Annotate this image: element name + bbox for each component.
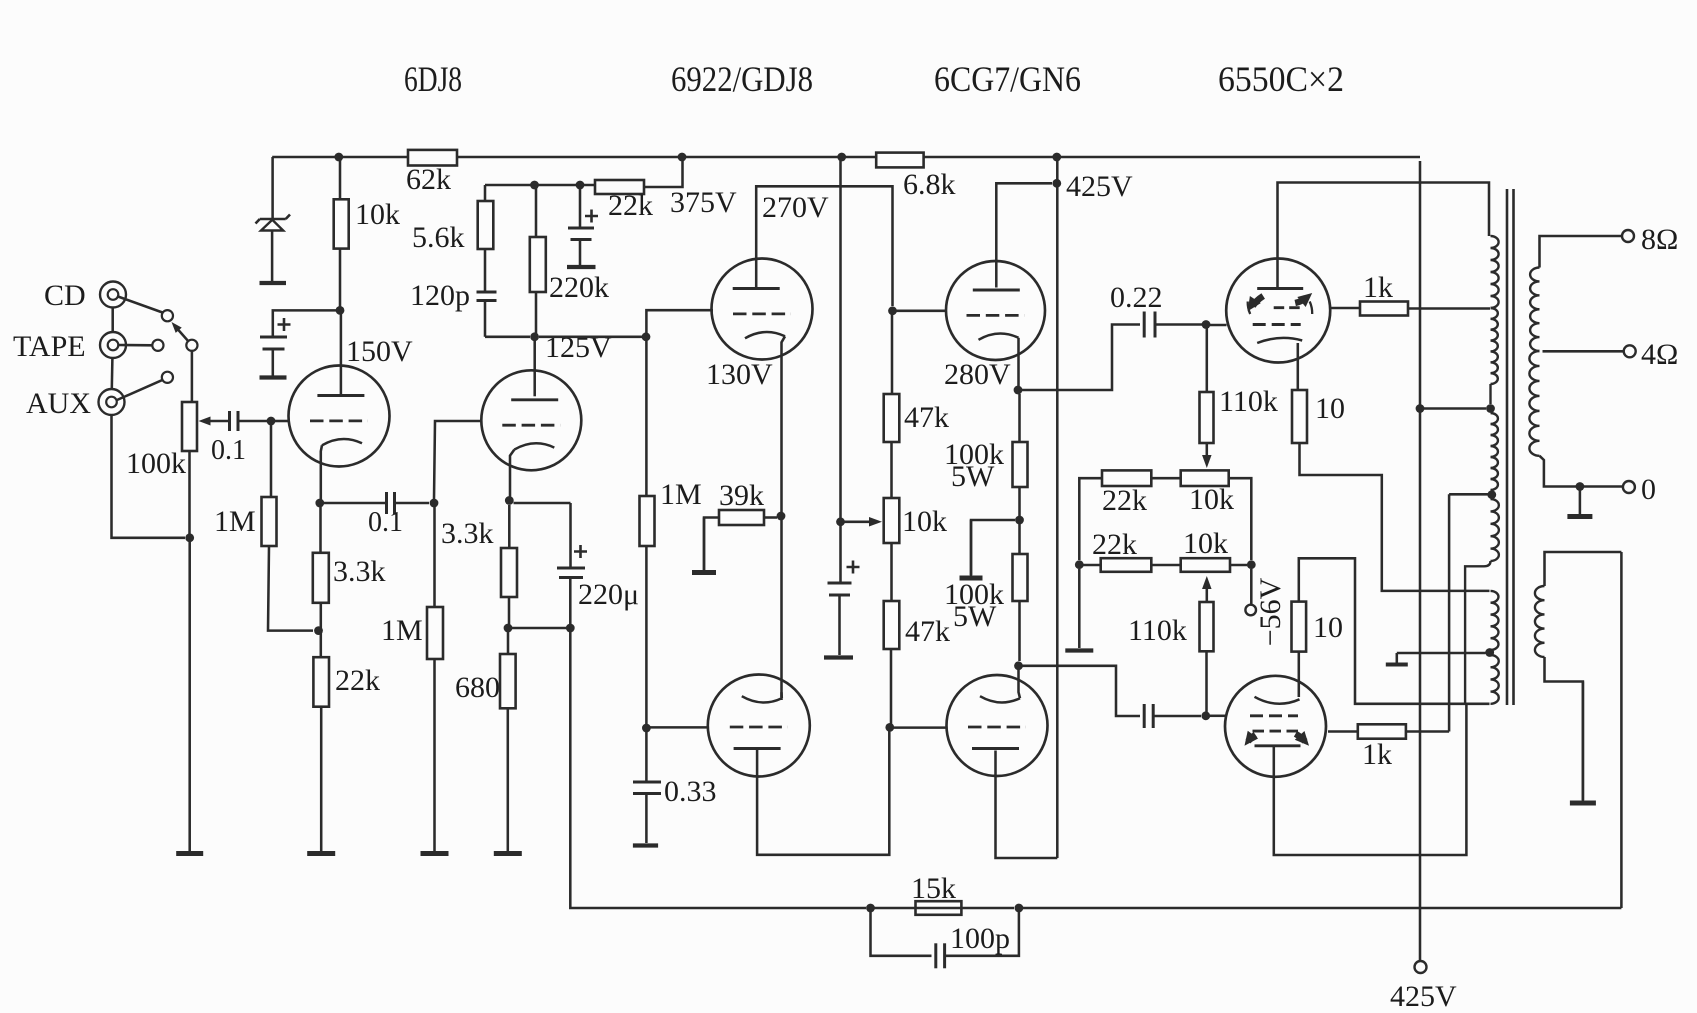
svg-text:5W: 5W	[951, 460, 995, 493]
wire 1k lower to tap line	[1406, 730, 1449, 733]
junction bias cap top	[576, 181, 585, 190]
label tube type 6550Cx2	[1218, 59, 1344, 99]
plus sign 220u	[574, 545, 587, 558]
input jack CD	[100, 282, 126, 308]
wire mid bias cap to ground	[838, 595, 841, 655]
resistor 47k upper	[884, 394, 900, 442]
svg-text:15k: 15k	[911, 872, 956, 905]
label 130V	[706, 358, 773, 391]
wire 125V line left	[485, 336, 530, 339]
label CD	[44, 279, 86, 312]
resistor 22k bias row1	[1102, 470, 1151, 486]
wire filter cap to ground	[272, 349, 275, 376]
svg-text:1M: 1M	[660, 478, 702, 511]
svg-text:5.6k: 5.6k	[412, 221, 465, 254]
label 22k row1	[1102, 484, 1147, 517]
wire to V7 grid	[1210, 324, 1227, 327]
wire 4 ohm tap	[1543, 350, 1624, 353]
ground V1 cathode	[307, 851, 335, 854]
input jack AUX	[99, 389, 125, 415]
ground filter cap V1	[260, 375, 287, 379]
capacitor 0.33	[633, 782, 661, 794]
wire feedback riser	[1620, 552, 1623, 908]
capacitor V6 coupling	[1144, 704, 1153, 728]
resistor 62k rail	[408, 150, 457, 166]
svg-text:CD: CD	[44, 279, 86, 312]
svg-text:130V: 130V	[706, 358, 773, 391]
terminal 8 ohm	[1622, 230, 1634, 242]
wire bias cap top lead	[579, 185, 582, 228]
label 1M V2	[381, 614, 423, 647]
svg-text:1k: 1k	[1363, 271, 1393, 304]
junction V1 grid node	[267, 417, 276, 426]
ground bias network	[1065, 648, 1093, 652]
wire switch common to volume pot	[191, 350, 194, 402]
wire 5.6k top rail	[485, 184, 595, 187]
junction V2 grid node	[430, 499, 439, 508]
label 62k	[406, 163, 451, 196]
label 0.1 input	[211, 435, 246, 466]
wire 120p to 125V line	[484, 301, 487, 337]
svg-text:22k: 22k	[1102, 484, 1147, 517]
wire V8 cathode lead	[1298, 652, 1301, 697]
junction V5 cathode 280V	[1014, 386, 1023, 395]
junction V4 grid node	[642, 724, 651, 733]
tube V3 6922 upper	[712, 259, 813, 513]
label 15k	[911, 872, 956, 905]
svg-text:22k: 22k	[335, 664, 380, 697]
junction primary tap UL lower	[1487, 490, 1496, 499]
svg-text:4Ω: 4Ω	[1641, 338, 1678, 371]
output transformer primary section 3	[1491, 413, 1498, 490]
resistor 1M V3 grid	[640, 496, 655, 546]
svg-text:425V: 425V	[1390, 980, 1457, 1013]
output transformer cathode winding upper	[1491, 591, 1499, 650]
potentiometer 10k bias row2	[1181, 558, 1230, 572]
resistor 1M V2 grid	[427, 607, 443, 659]
resistor 5.6k	[478, 201, 494, 249]
svg-text:100p: 100p	[950, 922, 1010, 955]
terminal -56V	[1245, 605, 1256, 616]
label 220u	[578, 578, 639, 611]
svg-text:5W: 5W	[953, 600, 997, 633]
wire 220k top lead	[535, 185, 538, 237]
svg-text:62k: 62k	[406, 163, 451, 196]
junction bias line wiper	[836, 517, 845, 526]
junction rail at 10k	[334, 153, 343, 162]
junction rail at 425V	[1052, 153, 1061, 162]
switch contact AUX	[162, 372, 173, 383]
resistor 22k V1 cathode	[313, 657, 329, 707]
label 110k lower	[1128, 614, 1187, 647]
terminal 4 ohm	[1624, 345, 1636, 357]
wire V2 cathode down	[508, 505, 511, 548]
tube V5 6CG7 upper	[946, 261, 1045, 386]
svg-text:150V: 150V	[346, 335, 413, 368]
wire 150V node to filter cap	[273, 310, 336, 337]
svg-text:6.8k: 6.8k	[903, 168, 956, 201]
wire -56V lead	[1250, 569, 1253, 604]
wire 100p loop	[871, 912, 932, 956]
label 8 ohm	[1641, 223, 1678, 256]
switch contact CD	[162, 310, 173, 321]
wire ground tap lead	[1397, 652, 1486, 655]
wire V7 plate riser	[1278, 183, 1490, 289]
svg-text:425V: 425V	[1066, 170, 1133, 203]
resistor 1M V1 grid	[262, 497, 277, 546]
label 5W upper	[951, 460, 995, 493]
feedback winding	[1535, 586, 1545, 657]
resistor 6.8k rail	[876, 153, 923, 168]
switch common contact	[186, 340, 197, 351]
ground 0 terminal	[1567, 490, 1592, 517]
wire B+ rail left segment	[272, 156, 408, 159]
wire 150V node to 10k	[339, 249, 342, 311]
junction AUX bus and pot bottom	[185, 533, 194, 542]
junction V6 grid node	[885, 723, 894, 732]
label 680	[455, 671, 500, 704]
wire V7 cathode lead	[1297, 343, 1300, 390]
capacitor 100p	[936, 943, 945, 968]
label 47k upper	[904, 401, 949, 434]
svg-text:6922/GDJ8: 6922/GDJ8	[671, 59, 813, 99]
label -56V	[1254, 577, 1287, 646]
wire V3 grid	[646, 310, 713, 333]
wire 5.6k to 120p	[484, 249, 487, 292]
label 0 terminal	[1641, 473, 1656, 506]
wire V2 grid	[434, 421, 482, 499]
junction cathode winding ground tap	[1485, 648, 1494, 657]
wire row1 right drop	[1229, 478, 1252, 560]
wire winding section jog	[1465, 561, 1490, 704]
label 100k upper	[944, 438, 1004, 471]
plus sign filter cap V1	[278, 318, 291, 331]
svg-text:AUX: AUX	[26, 387, 91, 420]
ground 39k	[692, 518, 716, 573]
wire 22k to rail	[644, 157, 683, 187]
output transformer primary section 1	[1491, 236, 1499, 308]
wire 100k pot bottom	[188, 451, 191, 538]
capacitor 120p	[477, 292, 497, 301]
capacitor 0.22 coupling	[1144, 312, 1155, 338]
plus sign mid bias cap	[847, 561, 860, 574]
wire center tap to B+ line	[1420, 407, 1486, 410]
wire V1 cathode to 0.1	[324, 502, 387, 505]
svg-text:0.1: 0.1	[368, 507, 403, 538]
wire grid node to 110k lower	[1205, 651, 1208, 712]
label 10k plate	[355, 198, 400, 231]
wire 100k upper down	[1018, 487, 1021, 520]
wire B+ down line	[1056, 161, 1059, 858]
wire 0.1 to V2 grid node	[395, 502, 430, 505]
wire 3.3k to junction	[320, 603, 323, 631]
wire B+ rail middle segment	[457, 156, 876, 159]
wire bias dropper line	[839, 157, 842, 583]
wire V8 screen lead	[1328, 730, 1358, 733]
resistor 10 V8 cathode	[1292, 602, 1307, 652]
wire 5.6k top lead	[484, 185, 487, 201]
wire V3 cathode to V4 cathode	[780, 520, 783, 697]
resistor 22k decoupling	[595, 180, 644, 194]
label 1M V3	[660, 478, 702, 511]
label 425V bottom	[1390, 980, 1457, 1013]
svg-text:0: 0	[1641, 473, 1656, 506]
junction 425V node top	[1052, 179, 1061, 188]
wire CD jack to contact	[118, 297, 163, 313]
wire 1k to UL tap	[1408, 307, 1490, 310]
wire cathode to 100k upper	[1018, 394, 1021, 442]
wire UL tap line lower	[1448, 494, 1451, 731]
wire CD jack to TAPE jack	[111, 308, 114, 333]
svg-text:120p: 120p	[410, 279, 470, 312]
wire 220u bottom lead	[569, 578, 572, 629]
svg-text:3.3k: 3.3k	[333, 555, 386, 588]
wire AUX jack down to bus	[112, 415, 186, 538]
wire V6 cathode to coupling cap	[1023, 666, 1141, 716]
wire midpoint to ground	[971, 520, 1015, 575]
potentiometer 10k bias row1	[1181, 470, 1229, 486]
label 22k V1	[335, 664, 380, 697]
capacitor electrolytic bias mid	[828, 583, 852, 595]
wire V4 grid node to 0.33	[645, 732, 648, 782]
label 10k row1	[1189, 483, 1234, 516]
label 0.33	[664, 775, 717, 808]
wire 1M bottom to bias node	[268, 546, 313, 631]
wire junction to 22k	[320, 631, 323, 658]
wire 100k lower down	[1018, 601, 1021, 661]
output transformer primary section 2	[1491, 308, 1498, 384]
ground 100k midpoint	[960, 520, 983, 578]
label 100k	[126, 447, 186, 480]
wire 39k right lead	[764, 516, 777, 519]
label 375V	[670, 186, 737, 219]
resistor 110k lower	[1200, 602, 1214, 651]
svg-text:22k: 22k	[1092, 528, 1137, 561]
label 125V	[545, 331, 612, 364]
wire B+ main vertical	[1419, 161, 1422, 961]
ground input bus	[176, 851, 203, 854]
resistor 47k lower	[884, 601, 900, 649]
wire 47k to pot	[890, 442, 893, 498]
label TAPE	[13, 330, 86, 363]
resistor 3.3k V1 cathode	[313, 553, 329, 603]
label tube type 6CG7/GN6	[934, 59, 1081, 99]
wire V1 plate lead	[340, 314, 343, 396]
label 10k row2	[1183, 527, 1228, 560]
wiper arrow bias pot 2	[1202, 576, 1212, 602]
label 0.22	[1110, 281, 1163, 314]
junction V2 cathode divider	[504, 624, 513, 633]
junction 125V to V3 grid	[642, 332, 651, 341]
junction feedback right	[1015, 904, 1024, 913]
tube V8 6550 lower	[1225, 676, 1326, 777]
output transformer cathode winding lower	[1491, 655, 1499, 704]
capacitor 0.1 input coupling	[230, 411, 239, 431]
svg-text:47k: 47k	[905, 615, 950, 648]
resistor 100k 5W upper	[1013, 442, 1028, 487]
resistor 15k feedback	[916, 901, 962, 915]
svg-text:39k: 39k	[719, 479, 764, 512]
wire V8 cathode to winding	[1299, 558, 1490, 704]
wire chain top to V5 grid	[893, 310, 947, 313]
junction 125V node	[530, 332, 539, 341]
svg-text:280V: 280V	[944, 358, 1011, 391]
wire zener to ground bar	[271, 231, 274, 282]
svg-text:6CG7/GN6: 6CG7/GN6	[934, 59, 1081, 99]
label AUX	[26, 387, 91, 420]
output transformer primary section 4	[1491, 499, 1499, 561]
wire V3 plate riser	[756, 186, 892, 306]
wire feedback winding top lead	[1545, 552, 1622, 586]
wire V4 grid	[650, 726, 708, 729]
ground cathode winding	[1386, 653, 1408, 665]
svg-text:3.3k: 3.3k	[441, 517, 494, 550]
svg-text:220k: 220k	[549, 271, 609, 304]
label 110k upper	[1219, 385, 1278, 418]
resistor 3.3k V2 cathode	[501, 548, 517, 597]
svg-text:680: 680	[455, 671, 500, 704]
capacitor electrolytic 375V bias	[568, 228, 594, 240]
wire 1M V3 down	[645, 546, 648, 724]
resistor 22k bias row2	[1101, 558, 1152, 572]
wire grid node to 110k upper	[1206, 328, 1209, 392]
transformer core	[1507, 189, 1514, 705]
junction 220k top	[530, 181, 539, 190]
label 0.1 interstage	[368, 507, 403, 538]
svg-text:110k: 110k	[1128, 614, 1187, 647]
wire grid node down to 1M	[270, 425, 273, 497]
svg-text:10k: 10k	[1183, 527, 1228, 560]
resistor 39k	[719, 510, 764, 525]
wire primary to center tap	[1489, 384, 1491, 404]
svg-text:8Ω: 8Ω	[1641, 223, 1678, 256]
wire UL tap to 1k line	[1449, 493, 1488, 496]
capacitor 0.1 interstage	[387, 492, 395, 514]
wire feedback through 15k	[912, 907, 962, 910]
wire V2 grid node to 1M	[433, 507, 436, 607]
wiper arrow 100k pot	[199, 417, 230, 426]
zener diode shunt	[256, 215, 291, 231]
wire junction to 680	[507, 628, 510, 654]
wire feedback line left	[874, 907, 912, 910]
wire to V6 grid	[893, 726, 947, 729]
wire rail down to zener	[271, 157, 274, 219]
potentiometer 10k balance	[884, 498, 900, 543]
label 100k lower	[944, 578, 1004, 611]
ground mid bias cap	[824, 655, 853, 659]
wire V8 plate route	[1274, 704, 1467, 855]
wire feedback node down	[570, 632, 866, 908]
junction V1 cathode	[315, 499, 324, 508]
label tube type 6922/GDJ8	[671, 59, 813, 99]
junction 100k midpoint	[1015, 516, 1024, 525]
wire AUX jack to contact	[117, 380, 163, 400]
terminal 425V	[1415, 961, 1427, 973]
tube V4 6922 lower	[708, 675, 810, 777]
svg-text:1k: 1k	[1362, 738, 1392, 771]
wire 280V to 0.22 cap	[1022, 325, 1140, 391]
tube V6 6CG7 lower	[947, 670, 1048, 776]
svg-text:220μ: 220μ	[578, 578, 639, 611]
svg-text:270V: 270V	[762, 191, 829, 224]
ground V2 grid resistor	[421, 851, 449, 854]
svg-text:−56V: −56V	[1254, 577, 1287, 646]
junction V6 cathode node	[1014, 661, 1023, 670]
junction V8 grid node	[1201, 711, 1210, 720]
wire 0.22 to V7 grid node	[1155, 323, 1202, 326]
svg-text:110k: 110k	[1219, 385, 1278, 418]
junction V2 cathode	[505, 496, 514, 505]
wire feedback winding to ground	[1545, 657, 1583, 800]
wire 0.33 to ground	[645, 794, 648, 844]
wiper arrow balance pot	[841, 517, 883, 527]
label 280V	[944, 358, 1011, 391]
svg-text:1M: 1M	[214, 505, 256, 538]
label 10 upper	[1315, 392, 1345, 425]
resistor 1k V7 screen	[1360, 302, 1408, 316]
wire row2 right lead	[1230, 564, 1247, 567]
label 1k lower	[1362, 738, 1392, 771]
potentiometer 100k volume	[182, 402, 197, 451]
wire TAPE jack to contact	[119, 344, 153, 347]
junction 220u feedback node	[566, 624, 575, 633]
wire V4 plate to divider chain	[757, 731, 889, 855]
wire 0.1 to grid node	[238, 420, 267, 423]
wire 1M V2 to ground	[433, 659, 436, 851]
wire grid node to V1 grid	[275, 420, 289, 423]
junction bias row2 right	[1247, 560, 1256, 569]
output transformer secondary upper	[1530, 268, 1539, 352]
resistor 10 V7 cathode	[1292, 390, 1307, 443]
ground zener	[260, 281, 287, 285]
label 120p	[410, 279, 470, 312]
junction V1 plate 150V node	[336, 306, 345, 315]
tube V1 6DJ8 first half	[289, 366, 390, 504]
resistor 110k upper	[1200, 392, 1214, 443]
junction bias row2 left	[1075, 560, 1084, 569]
wire feedback line right	[1023, 907, 1621, 910]
wire V6 plate to B+	[996, 751, 1058, 859]
svg-text:6DJ8: 6DJ8	[404, 59, 462, 99]
wire row1 left drop	[1079, 478, 1102, 560]
svg-text:10k: 10k	[1189, 483, 1234, 516]
junction feedback left	[866, 904, 875, 913]
terminal 0	[1623, 481, 1635, 493]
wire to V8 grid	[1210, 715, 1226, 718]
label 1M	[214, 505, 256, 538]
capacitor 220u bypass	[557, 568, 585, 578]
wire TAPE jack to AUX jack	[111, 358, 114, 389]
output transformer secondary lower	[1529, 351, 1539, 456]
svg-text:47k: 47k	[904, 401, 949, 434]
wire 220k bottom lead	[535, 292, 538, 337]
junction rail at bias line	[837, 153, 846, 162]
wire V1 cathode down	[319, 507, 322, 553]
wire midpoint to 100k lower	[1018, 520, 1021, 554]
label 6.8k	[903, 168, 956, 201]
svg-text:10: 10	[1315, 392, 1345, 425]
label 22k row2	[1092, 528, 1137, 561]
wire feedback line mid	[961, 907, 1014, 910]
svg-text:22k: 22k	[608, 189, 653, 222]
wire secondary bottom to 0 terminal	[1540, 456, 1623, 487]
label 220k	[549, 271, 609, 304]
junction V5 grid chain top	[888, 306, 897, 315]
wire pot bottom to ground	[188, 542, 191, 851]
svg-text:0.1: 0.1	[211, 435, 246, 466]
svg-text:10: 10	[1313, 611, 1343, 644]
wire V5 plate riser	[996, 183, 1052, 287]
